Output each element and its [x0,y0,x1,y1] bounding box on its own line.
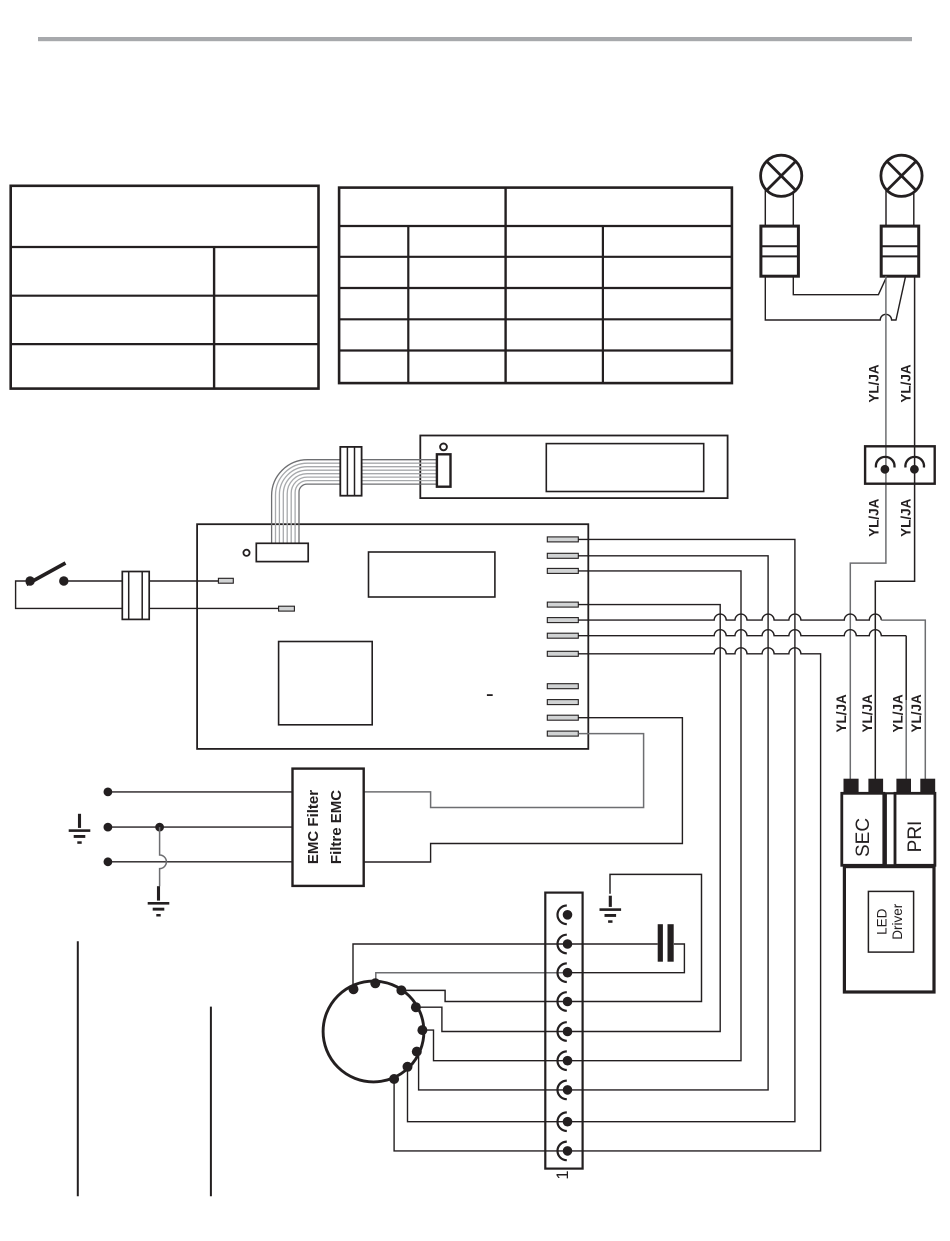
svg-text:Filtre EMC: Filtre EMC [328,790,345,864]
svg-text:YL/JA: YL/JA [891,694,906,733]
svg-text:YL/JA: YL/JA [834,694,849,733]
svg-text:LED: LED [875,908,890,935]
svg-text:PRI: PRI [905,821,926,853]
svg-text:YL/JA: YL/JA [898,498,913,537]
svg-text:EMC Filter: EMC Filter [305,790,322,864]
svg-text:Driver: Driver [890,903,905,940]
svg-text:1: 1 [554,1170,572,1179]
svg-text:YL/JA: YL/JA [860,694,875,733]
svg-text:SEC: SEC [853,818,874,857]
svg-text:YL/JA: YL/JA [898,364,913,403]
svg-text:YL/JA: YL/JA [867,498,882,537]
svg-text:YL/JA: YL/JA [867,364,882,403]
svg-text:YL/JA: YL/JA [909,694,924,733]
